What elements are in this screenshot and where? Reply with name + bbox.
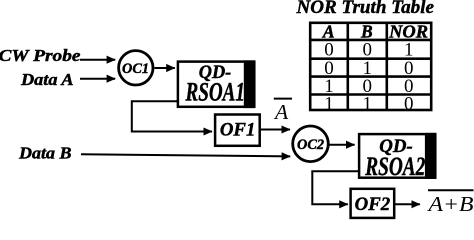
wire QD-RSOA1 feedback to OF1 <box>132 101 212 131</box>
coupler OC1 <box>119 51 153 85</box>
wire Data B to OC2 <box>81 154 290 156</box>
svg-text:CW Probe: CW Probe <box>0 46 81 65</box>
svg-text:Data A: Data A <box>20 70 74 89</box>
svg-text:1: 1 <box>324 93 334 114</box>
svg-text:A: A <box>322 21 335 41</box>
svg-text:1: 1 <box>362 93 372 114</box>
wire OF1 to OC2 <box>261 129 290 131</box>
svg-text:0: 0 <box>404 93 414 114</box>
wire OC1 to QD-RSOA1 <box>155 67 175 69</box>
filter OF2 <box>351 189 395 218</box>
svg-text:OC1: OC1 <box>122 61 149 77</box>
svg-text:NOR: NOR <box>388 21 428 41</box>
svg-text:A+B: A+B <box>426 192 473 216</box>
svg-text:Data B: Data B <box>18 144 72 163</box>
wire OF2 to output <box>396 203 420 205</box>
svg-text:RSOA1: RSOA1 <box>185 78 245 107</box>
svg-text:RSOA2: RSOA2 <box>365 152 426 181</box>
node output A+B-bar label <box>426 190 473 216</box>
svg-text:OC2: OC2 <box>297 137 324 153</box>
wire Data A arrow into OC1 <box>80 78 115 80</box>
wire CW Probe arrow into OC1 <box>80 59 115 61</box>
amplifier QD-RSOA2 <box>359 133 436 181</box>
svg-text:NOR Truth Table: NOR Truth Table <box>295 0 434 18</box>
svg-text:A: A <box>273 100 289 124</box>
wire QD-RSOA2 feedback to OF2 <box>312 171 359 204</box>
truth table data rows <box>324 40 413 115</box>
coupler OC2 <box>293 126 329 162</box>
wire OC2 to QD-RSOA2 <box>330 144 355 146</box>
filter OF1 <box>215 115 260 146</box>
truth table grid <box>310 23 431 110</box>
svg-text:OF1: OF1 <box>220 119 256 140</box>
amplifier QD-RSOA1 <box>178 60 255 108</box>
svg-text:B: B <box>360 21 373 41</box>
svg-text:OF2: OF2 <box>355 194 391 215</box>
truth table header row <box>322 21 428 41</box>
node A-bar label <box>273 99 292 124</box>
